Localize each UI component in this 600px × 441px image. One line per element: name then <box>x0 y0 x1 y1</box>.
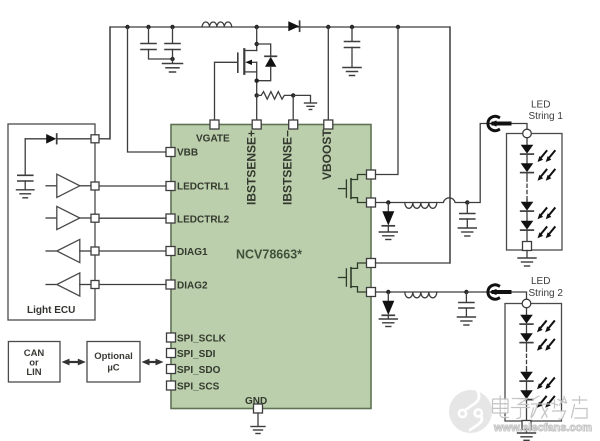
pin square M2 source <box>367 288 376 297</box>
transistor M1 (internal buck switch 1) <box>339 175 367 203</box>
terminal square string 1 bottom <box>523 242 532 251</box>
junction Q1 drain / body diode <box>255 42 259 46</box>
inductor L1 (boost inductor on rail) <box>202 22 232 27</box>
buffer A2 (LEDCTRL2 driver) <box>46 206 90 229</box>
wire ECU battery input <box>25 138 46 140</box>
inductor L3 (buck 2) <box>405 292 437 298</box>
pin square GND <box>254 404 263 413</box>
svg-text:String 2: String 2 <box>529 288 564 299</box>
svg-text:LED: LED <box>531 100 550 111</box>
pin square M1 drain <box>367 170 376 179</box>
diode D1 (boost rectifier) <box>288 21 299 31</box>
svg-text:Optional: Optional <box>94 351 133 362</box>
wire VBOOST pin drop <box>327 27 329 121</box>
pin square SPI_SCLK <box>167 333 176 342</box>
junction C1/C2 bottom join <box>170 57 174 61</box>
bus arrow uC to SPI (double-headed) <box>142 359 164 366</box>
wire VGATE pin to Q1 gate <box>215 62 238 121</box>
buffer A1 (LEDCTRL1 driver) <box>46 174 90 197</box>
pin square ECU DIAG2 <box>91 281 99 289</box>
pin square ECU battery out <box>91 135 99 143</box>
LED D11 <box>520 333 533 342</box>
svg-text:IBSTSENSE−: IBSTSENSE− <box>281 130 295 205</box>
diode D4 (freewheel, string 2) <box>382 292 394 319</box>
svg-text:Light ECU: Light ECU <box>27 305 75 316</box>
inductor L2 (buck 1) <box>405 203 437 209</box>
diode D2 (Q1 body diode, cathode up) <box>257 44 277 81</box>
svg-text:www.elecfans.com: www.elecfans.com <box>493 422 592 434</box>
svg-text:SPI_SCS: SPI_SCS <box>177 382 220 393</box>
capacitor C2 <box>165 27 180 63</box>
emission arrows LED D7 <box>538 170 555 181</box>
pin square DIAG2 <box>166 280 175 289</box>
capacitor C5 (buck 1 output) <box>460 203 475 228</box>
wire M2 source to buck node 2 <box>376 291 467 293</box>
capacitor C4 (ECU input cap) <box>18 139 33 190</box>
svg-text:DIAG1: DIAG1 <box>177 247 208 258</box>
LED chain string 2 <box>520 308 554 421</box>
junction D3 at buck node 1 <box>386 200 390 204</box>
wire string 2 to ground <box>526 430 528 433</box>
pin square IBSTSENSE+ <box>252 120 261 129</box>
buffer A4 (DIAG2 receiver, points left) <box>46 273 90 296</box>
ground under string 2 <box>518 433 536 440</box>
pin square VBB <box>166 148 175 157</box>
junction on rail at Q1 drain <box>255 25 259 29</box>
current probe arrow (string 2) <box>488 285 510 299</box>
bus arrow CAN/LIN to uC (double-headed) <box>62 359 86 366</box>
wire buck node 1 up to LED string 1 <box>467 124 527 203</box>
junction Q1 source / R1 <box>255 93 259 97</box>
LED D7 <box>521 163 534 172</box>
junction on rail at C1 <box>146 25 150 29</box>
wire R1 to IBSTSENSE- pin <box>292 95 294 121</box>
junction on rail at M1 drain drop <box>396 25 400 29</box>
pin square IBSTSENSE- <box>289 120 298 129</box>
junction Q1 source / D2 anode <box>255 79 259 83</box>
IC U1 NCV78663 body <box>171 125 371 409</box>
LED D8 <box>521 202 534 211</box>
junction R1 right / IBSTSENSE- <box>291 93 295 97</box>
watermark text CJK (elecfans) <box>493 396 593 434</box>
watermark logo disc <box>449 390 492 433</box>
wire rail to VBB pin <box>128 27 167 152</box>
ground under C6 <box>457 317 475 325</box>
glyph zi <box>513 399 529 405</box>
pin square SPI_SCS <box>167 381 176 390</box>
pin square ECU DIAG1 <box>91 247 99 255</box>
LED D12 <box>520 372 533 381</box>
glyph you <box>572 397 588 419</box>
wire LEDCTRL2 net <box>100 217 167 219</box>
terminal circle string 2 top <box>522 299 531 308</box>
pin square SPI_SDO <box>167 365 176 374</box>
wire Q1 source to IBSTSENSE+ pin <box>256 95 258 121</box>
emission arrows LED D10 <box>537 321 554 332</box>
wire GND pin to ground <box>257 413 259 426</box>
wire LEDCTRL1 net <box>100 185 167 187</box>
emission arrows LED D12 <box>537 378 554 389</box>
wire string 1 to ground <box>526 251 528 258</box>
pin square M2 drain <box>367 259 376 268</box>
pin square VGATE <box>210 120 219 129</box>
junction on rail at C3 <box>350 25 354 29</box>
pin square LEDCTRL1 <box>166 182 175 191</box>
svg-text:µC: µC <box>107 363 119 374</box>
LED D13 <box>520 390 533 399</box>
svg-text:VGATE: VGATE <box>196 134 230 145</box>
wire R1 right to ground stub <box>293 95 310 102</box>
ground under D4 <box>379 319 397 327</box>
LED String 1 box <box>507 134 563 251</box>
capacitor C3 (boost output) <box>345 27 360 67</box>
Light ECU box <box>8 124 95 320</box>
junction on rail at C2 <box>170 25 174 29</box>
wire buck node 2 to LED string 2 <box>466 292 526 300</box>
wire M1 source to buck node 1 (with hop over M2 drain wire) <box>376 198 468 203</box>
junction on rail at VBOOST pin drop <box>326 25 330 29</box>
capacitor C6 (buck 2 output) <box>459 292 474 317</box>
junction D4 at buck node 2 <box>386 290 390 294</box>
CAN or LIN label <box>24 348 45 378</box>
LED D6 <box>521 145 534 154</box>
svg-text:VBOOST: VBOOST <box>320 129 334 180</box>
emission arrows LED D6 <box>538 151 555 162</box>
LED chain string 1 <box>521 138 555 242</box>
capacitor C1 <box>141 27 173 59</box>
junction C6 at buck 2 output <box>464 290 468 294</box>
svg-text:SPI_SCLK: SPI_SCLK <box>177 334 227 345</box>
emission arrows LED D8 <box>538 208 555 219</box>
CAN or LIN box <box>8 342 60 383</box>
ground under C5 <box>458 228 476 236</box>
pin square VBOOST <box>324 120 333 129</box>
ground under C3 <box>343 68 361 76</box>
svg-text:LEDCTRL2: LEDCTRL2 <box>177 215 230 226</box>
ground under D3 <box>379 232 397 240</box>
dashed segment string 2 <box>526 348 528 370</box>
glyph fa <box>531 396 550 418</box>
LED String 2 label <box>529 276 564 299</box>
pin square DIAG1 <box>166 247 175 256</box>
pin square ECU LEDCTRL2 <box>91 214 99 222</box>
svg-text:SPI_SDO: SPI_SDO <box>177 365 221 376</box>
svg-text:LEDCTRL1: LEDCTRL1 <box>177 182 230 193</box>
LED D10 <box>520 315 533 324</box>
svg-text:LED: LED <box>531 276 550 287</box>
ground at GND pin <box>251 427 265 434</box>
LED D9 <box>521 221 534 230</box>
ground at R1 right <box>305 103 317 110</box>
pin square ECU LEDCTRL1 <box>91 182 99 190</box>
ground in ECU <box>17 190 35 198</box>
wire ECU battery pin up to rail <box>100 27 111 139</box>
pin square M1 source <box>367 198 376 207</box>
svg-text:IBSTSENSE+: IBSTSENSE+ <box>245 130 259 205</box>
transistor Q1 (external boost NMOS) <box>238 49 257 95</box>
glyph shao <box>552 397 567 420</box>
svg-text:VBB: VBB <box>177 148 198 159</box>
current probe arrow (string 1) <box>488 116 510 130</box>
wire DIAG2 net <box>100 284 167 286</box>
emission arrows LED D9 <box>538 227 555 238</box>
pin square SPI_SDI <box>167 349 176 358</box>
dashed segment string 1 <box>526 178 528 200</box>
Optional uC box <box>87 342 140 383</box>
LED String 1 label <box>529 100 564 122</box>
Optional uC label <box>94 351 133 374</box>
emission arrows LED D11 <box>537 340 554 351</box>
glyph dian <box>493 399 509 413</box>
diode D3 (freewheel, string 1) <box>382 203 394 232</box>
pin square LEDCTRL2 <box>166 214 175 223</box>
wire M1 drain to rail <box>376 27 399 175</box>
junction on rail at VBB drop <box>125 25 129 29</box>
svg-text:LIN: LIN <box>26 367 41 378</box>
ground under C1/C2 <box>163 64 183 73</box>
wire Q1 drain from rail <box>256 27 258 51</box>
svg-text:String 1: String 1 <box>529 111 564 122</box>
junction C5 at buck 1 output <box>465 200 469 204</box>
node VBOOST rail (top supply wire) <box>110 27 450 263</box>
diode D5 (ECU reverse-protection) <box>46 134 90 144</box>
buffer A3 (DIAG1 receiver, points left) <box>46 239 90 262</box>
wire M2 drain to rail corner <box>376 27 451 263</box>
ground under string 1 <box>518 258 536 266</box>
resistor R1 (boost current sense) <box>257 92 294 100</box>
svg-text:DIAG2: DIAG2 <box>177 281 208 292</box>
transistor M2 (internal buck switch 2) <box>339 263 367 292</box>
terminal square string 2 bottom <box>522 421 531 430</box>
wire DIAG1 net <box>100 250 167 252</box>
svg-text:NCV78663*: NCV78663* <box>236 248 302 262</box>
terminal circle string 1 top <box>523 129 532 138</box>
emission arrows LED D13 <box>537 397 554 408</box>
svg-text:SPI_SDI: SPI_SDI <box>177 349 216 360</box>
LED String 2 box <box>505 304 562 422</box>
